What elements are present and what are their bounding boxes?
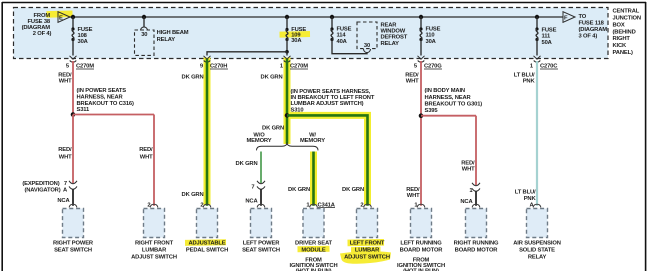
right front lumbar adjust switch box [144,209,165,238]
highlight wire C270H column [204,58,211,206]
wire bus to fuse 114 [331,17,333,29]
svg-text:RIGHT FRONT: RIGHT FRONT [135,241,174,247]
air suspension solid state relay box [527,209,548,238]
wire red col8 down [475,116,477,185]
svg-text:NCA: NCA [460,199,473,205]
svg-text:30A: 30A [426,39,437,45]
svg-text:S311: S311 [77,107,91,113]
wire S311 branch right [73,114,154,116]
wire S395 branch right [421,115,476,117]
highlight label ADJUSTABLE [185,239,226,246]
splice S310 note [291,89,375,114]
high beam relay box [135,30,155,55]
wire jog node to C270M [286,52,288,56]
svg-text:HARNESS, NEAR: HARNESS, NEAR [77,95,124,101]
svg-text:C270M: C270M [76,64,94,70]
label red/wht col7 bottom [406,187,420,199]
svg-text:DK GRN: DK GRN [182,74,204,80]
fuse 110 [419,27,422,30]
svg-text:LUMBAR: LUMBAR [142,248,167,254]
svg-text:7: 7 [251,185,254,191]
svg-text:RELAY: RELAY [157,37,176,43]
svg-text:WINDOW: WINDOW [381,29,406,35]
svg-text:ADJUSTABLE: ADJUSTABLE [188,241,225,247]
connector C270M pin 1 (border crossing) [284,56,291,62]
fuse 114 [330,27,333,30]
node jog [285,50,289,54]
svg-text:MODULE: MODULE [301,248,326,254]
svg-text:DRIVER SEAT: DRIVER SEAT [295,241,333,247]
svg-text:108: 108 [78,33,88,39]
svg-text:110: 110 [426,33,435,39]
connector C270C pin 1 (border crossing) [534,56,541,62]
fuse 108 [71,27,74,30]
connector C270M pin 5 (border crossing) [70,56,77,62]
svg-text:DK GRN: DK GRN [342,187,364,193]
svg-text:BOX: BOX [613,22,625,28]
svg-text:SEAT SWITCH: SEAT SWITCH [242,248,280,254]
left running board motor box [411,209,432,238]
svg-text:DK GRN: DK GRN [182,192,204,198]
svg-text:RED/: RED/ [139,147,153,153]
node S311 [71,112,76,117]
highlight over arrow E [46,10,72,17]
fuse 109 [285,28,288,31]
wire bus to fuse 111 [536,17,538,29]
svg-text:(IN POWER SEATS HARNESS,: (IN POWER SEATS HARNESS, [291,89,371,95]
svg-text:DK GRN: DK GRN [262,126,284,132]
highlight wire C270M trunk to S310 and branches [284,58,291,145]
svg-text:FUSE: FUSE [426,26,441,32]
svg-text:50A: 50A [542,40,553,46]
svg-text:WHT: WHT [140,154,153,160]
inline connector col1 [69,181,77,189]
svg-text:2: 2 [147,202,150,208]
svg-text:PNK: PNK [524,196,537,202]
inline connector col8 [472,183,480,191]
wire fuse 110 to C270G [420,40,422,56]
svg-text:MEMORY: MEMORY [300,138,325,144]
connector C270H pin 9 (border crossing) [204,56,211,62]
svg-text:LEFT RUNNING: LEFT RUNNING [400,241,442,247]
central junction box name label [613,9,641,56]
svg-text:JUNCTION: JUNCTION [613,16,641,22]
svg-text:SEAT SWITCH: SEAT SWITCH [54,248,92,254]
svg-text:LEFT POWER: LEFT POWER [243,241,280,247]
highlight on 109 [279,31,310,38]
svg-text:C270G: C270G [424,64,442,70]
right power seat switch box [63,209,84,238]
label lt blu/pnk col9 top [514,72,536,84]
svg-text:LUMBAR ADJUST SWITCH): LUMBAR ADJUST SWITCH) [291,101,364,107]
splice S311 note [77,88,134,113]
svg-text:AIR SUSPENSION: AIR SUSPENSION [513,241,561,247]
inline connector col4 [257,181,265,189]
wire red col7 [420,61,422,206]
svg-text:114: 114 [337,33,347,39]
svg-text:2 OF 4): 2 OF 4) [33,31,52,37]
label red/wht [58,72,72,84]
svg-text:CENTRAL: CENTRAL [613,9,640,15]
svg-text:FUSE: FUSE [337,26,352,32]
wire green trunk to S310 [286,59,289,144]
svg-text:BREAKOUT TO C316): BREAKOUT TO C316) [77,101,134,107]
wire bus to fuse 109 [286,17,288,30]
central junction box [14,8,609,59]
driver seat module box [303,209,324,238]
svg-text:BOARD MOTOR: BOARD MOTOR [400,248,444,254]
brace split w/o and w/ memory [257,143,319,151]
svg-text:30A: 30A [78,39,89,45]
label w/ memory [300,133,325,144]
svg-text:RED/: RED/ [58,147,72,153]
rear window defrost relay label [381,22,408,47]
svg-text:FUSE: FUSE [542,27,557,33]
node S395 [419,113,424,118]
svg-text:WHT: WHT [59,78,72,84]
svg-text:WHT: WHT [462,167,475,173]
node S310 [285,113,290,118]
label red/wht col2 [139,147,153,160]
wire bus to fuse 110 [420,17,422,29]
connector C270G pin 5 (border crossing) [418,56,425,62]
svg-text:2: 2 [200,202,203,208]
svg-text:(BEHIND: (BEHIND [613,29,636,35]
svg-text:FUSE: FUSE [78,27,93,33]
svg-text:FUSE 118: FUSE 118 [579,20,605,26]
svg-text:RELAY: RELAY [528,254,547,260]
wire bus to fuse 108 [72,17,74,29]
svg-text:(IN POWER SEATS: (IN POWER SEATS [77,88,127,94]
wire red down col1 [72,115,74,184]
node fuse108 tap [71,15,75,19]
highlight label MODULE [297,246,329,253]
svg-text:TO: TO [579,14,587,20]
arrow E (from fuse 38) [58,12,70,23]
right running board motor box [466,209,487,238]
svg-text:2: 2 [360,202,363,208]
svg-text:7: 7 [64,181,67,187]
wire jog to C270H [207,52,287,56]
svg-text:40A: 40A [337,39,348,45]
svg-text:MEMORY: MEMORY [247,138,272,144]
node fuse114 tap [330,15,334,19]
svg-text:BOARD MOTOR: BOARD MOTOR [455,248,499,254]
svg-text:RIGHT: RIGHT [613,36,631,42]
wire red C270M down to S311 [72,61,74,115]
wire red col2 down [153,115,155,206]
svg-text:F: F [564,16,568,22]
wire green col5 (w/ memory) [312,152,315,206]
svg-text:(EXPEDITION): (EXPEDITION) [22,181,59,187]
svg-text:HARNESS, NEAR: HARNESS, NEAR [425,95,472,101]
svg-text:LEFT FRONT: LEFT FRONT [350,241,385,247]
label red/wht col1 [58,147,72,160]
svg-text:ADJUST SWITCH: ADJUST SWITCH [344,254,390,260]
left front lumbar adjust switch box [357,209,378,238]
svg-text:E: E [59,16,63,22]
highlight label LEFT FRONT LUMBAR ADJUST SWITCH [347,239,384,246]
box pin domes [69,204,541,207]
left power seat switch box [251,209,272,238]
wire fuse 109 down to jog node [286,40,288,52]
arrow F (to fuse 118) [563,12,575,23]
svg-text:111: 111 [542,34,552,40]
wire black stub col4 [260,189,262,206]
high beam relay contact [143,17,145,27]
svg-text:NCA: NCA [57,198,70,204]
to fuse 118 label [579,14,608,40]
wire black stub col8 [475,191,477,206]
rear window defrost relay box [357,22,377,49]
svg-text:PEDAL SWITCH: PEDAL SWITCH [186,248,228,254]
svg-text:IN BREAKOUT TO LEFT FRONT: IN BREAKOUT TO LEFT FRONT [291,95,375,101]
node fuse111 tap [535,15,539,19]
from fuse 38 label [22,13,52,37]
high beam relay label [157,30,189,43]
node fuse109 tap [285,15,289,19]
rear window defrost relay contact [364,49,371,53]
svg-text:C270H: C270H [210,64,227,70]
fuse 111 [535,27,538,30]
svg-text:RELAY: RELAY [381,41,400,47]
label w/o memory [247,133,272,144]
bus wire [70,16,564,18]
svg-text:HIGH BEAM: HIGH BEAM [157,30,189,36]
wire fuse 111 to C270C [536,40,538,56]
wire black stub col1 [72,189,74,206]
svg-text:S395: S395 [425,108,439,114]
svg-text:SOLID STATE: SOLID STATE [519,248,555,254]
svg-text:30: 30 [364,43,370,49]
svg-text:LUMBAR: LUMBAR [355,248,380,254]
wire fuse 108 to C270M [72,40,74,56]
svg-text:3 OF 4): 3 OF 4) [579,33,598,39]
node fuse110 tap [419,15,423,19]
svg-text:NCA: NCA [245,198,258,204]
svg-text:30A: 30A [291,38,302,44]
svg-text:(NAVIGATOR): (NAVIGATOR) [24,188,60,194]
wire fuse 114 to defrost relay [332,40,367,54]
svg-text:30: 30 [141,32,147,38]
svg-text:DK GRN: DK GRN [236,161,258,167]
svg-text:RIGHT POWER: RIGHT POWER [53,241,94,247]
splice S395 note [425,88,483,114]
adjustable pedal switch box [197,209,218,238]
svg-text:BREAKOUT TO G301): BREAKOUT TO G301) [425,101,483,107]
svg-text:S310: S310 [291,107,304,113]
svg-text:DK GRN: DK GRN [288,187,310,193]
svg-text:RIGHT RUNNING: RIGHT RUNNING [454,241,499,247]
node high beam relay tap [142,15,146,19]
label lt blu/pnk col9 bottom [515,190,537,203]
svg-text:(IN BODY MAIN: (IN BODY MAIN [425,88,465,94]
svg-text:(DIAGRAM: (DIAGRAM [579,27,608,33]
svg-text:WHT: WHT [406,78,419,84]
wire green S310 branch right to col6 [287,115,368,205]
svg-text:REAR: REAR [381,22,398,28]
svg-text:KICK: KICK [613,43,628,49]
svg-text:PNK: PNK [523,78,536,84]
svg-text:DK GRN: DK GRN [261,74,283,80]
svg-text:ADJUST SWITCH: ADJUST SWITCH [131,254,177,260]
wire green col4 (w/o memory) [260,152,262,184]
label red/wht col8 [461,161,475,173]
svg-text:C270M: C270M [290,64,308,70]
svg-text:LT BLU/: LT BLU/ [515,190,536,196]
label red/wht col7 top [405,72,419,84]
wire lt blu col9 [536,61,538,206]
svg-text:PANEL): PANEL) [613,50,633,56]
wire green col3 [206,59,209,206]
svg-text:DEFROST: DEFROST [381,35,408,41]
svg-text:WHT: WHT [407,193,420,199]
svg-text:WHT: WHT [59,154,72,160]
svg-text:C270C: C270C [540,64,558,70]
